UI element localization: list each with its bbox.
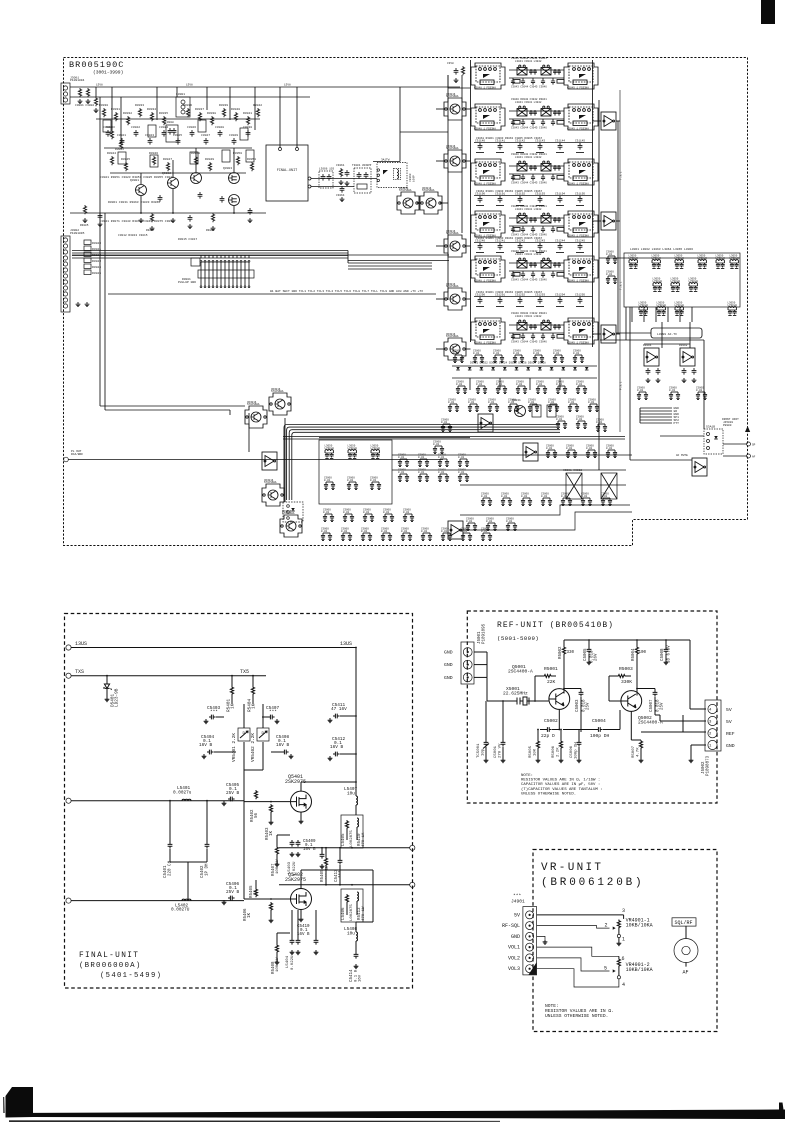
svg-text:U330PP: U330PP xyxy=(362,164,372,167)
svg-text:C3061 R3061 C3063 R3063 C306: C3061 R3061 C3063 R3063 C3065 R3065 C306… xyxy=(476,237,543,240)
svg-text:P1091094: P1091094 xyxy=(70,79,85,82)
right bank vertical feeds xyxy=(631,307,633,322)
svg-text:R3047: R3047 xyxy=(163,158,172,161)
capacitor C5401 220 CH xyxy=(169,801,171,842)
bottom band long wires xyxy=(392,454,632,456)
svg-text:270 VV: 270 VV xyxy=(499,743,503,758)
filter stage FI-3 xyxy=(471,153,598,185)
svg-text:C3V8: C3V8 xyxy=(447,62,454,65)
capacitor C5414 0.1 16V xyxy=(354,952,359,959)
svg-text:GND: GND xyxy=(726,743,735,749)
buffer amp A5 xyxy=(523,443,538,461)
long feed verticals xyxy=(447,75,449,300)
disc cluster row 1 xyxy=(325,444,335,458)
svg-text:470 1W: 470 1W xyxy=(362,906,366,921)
svg-text:470 1K: 470 1K xyxy=(362,832,366,847)
svg-text:P1091095: P1091095 xyxy=(70,232,85,235)
left chain interconnect wires xyxy=(96,118,260,120)
svg-text:26V: 26V xyxy=(595,653,599,661)
svg-text:3: 3 xyxy=(709,721,712,725)
svg-text:16V B: 16V B xyxy=(303,848,316,852)
svg-text:13V8: 13V8 xyxy=(186,84,193,87)
module interconnect wires xyxy=(248,413,250,452)
phone jack amp xyxy=(692,458,707,476)
wire VOL3 to VR2 bottom xyxy=(537,969,619,987)
af cluster row 1 xyxy=(637,387,648,400)
svg-text:W1 BAT SHFT GND TCL1 TCL2 TCL3: W1 BAT SHFT GND TCL1 TCL2 TCL3 TCL4 TCL5… xyxy=(270,290,423,293)
svg-text:SQL/RF: SQL/RF xyxy=(675,920,693,926)
trimmer VR5402 2.2K xyxy=(257,728,269,741)
PL out long wire xyxy=(69,459,444,461)
svg-text:100P: 100P xyxy=(413,175,416,182)
svg-text:4.7K: 4.7K xyxy=(637,747,641,757)
right area wires xyxy=(600,339,704,341)
svg-text:R3004: R3004 xyxy=(115,148,124,151)
svg-text:C31294: C31294 xyxy=(555,294,565,297)
svg-text:R3037: R3037 xyxy=(195,108,204,111)
svg-text:R3030: R3030 xyxy=(99,104,108,107)
resistor R5401 1K xyxy=(231,676,233,686)
svg-text:R3032: R3032 xyxy=(123,112,132,115)
diode D5401 xyxy=(106,676,108,684)
svg-text:1: 1 xyxy=(709,745,712,749)
pin RF input upper xyxy=(66,798,71,803)
svg-text:C5401: C5401 xyxy=(164,865,168,878)
svg-text:Q3031: Q3031 xyxy=(512,399,521,402)
right rail clusters xyxy=(606,251,617,264)
svg-text:R3044: R3044 xyxy=(107,152,116,155)
svg-text:C31240: C31240 xyxy=(475,240,485,243)
bias resistors at connector xyxy=(78,88,81,97)
connector J5001 xyxy=(461,642,474,684)
svg-text:1K: 1K xyxy=(270,830,274,836)
svg-text:16V B: 16V B xyxy=(199,743,213,748)
connector J5002 xyxy=(705,700,721,751)
left chain hanging component clusters row 1 xyxy=(102,108,105,117)
mid band fill clusters xyxy=(441,419,452,432)
svg-text:C3022: C3022 xyxy=(131,126,140,129)
svg-text:AF: AF xyxy=(752,456,756,459)
svg-text:25V B: 25V B xyxy=(226,890,240,895)
svg-text:C31241: C31241 xyxy=(495,240,505,243)
LC bank outline box xyxy=(624,253,740,307)
svg-text:16V: 16V xyxy=(359,974,363,982)
svg-text:RESISTOR VALUES ARE IN Ω, 1/16: RESISTOR VALUES ARE IN Ω, 1/16W : xyxy=(521,778,600,783)
lower output node wire xyxy=(279,884,410,886)
column inner rail xyxy=(598,100,600,470)
gate network R5402 R5403 xyxy=(244,801,291,803)
caps L5404 0.022u xyxy=(290,938,295,945)
small caps row under chain xyxy=(158,195,163,202)
svg-text:C3061: C3061 xyxy=(336,164,345,167)
svg-text:C3028: C3028 xyxy=(215,126,224,129)
oscillator transistor Q3031 xyxy=(515,406,526,417)
svg-text:R3038: R3038 xyxy=(207,112,216,115)
svg-text:R3034: R3034 xyxy=(147,108,156,111)
svg-text:AF: AF xyxy=(683,970,689,976)
svg-text:C3012 R3013 C3015: C3012 R3013 C3015 xyxy=(118,234,148,237)
svg-text:0.022U: 0.022U xyxy=(291,955,295,970)
svg-text:PTT: PTT xyxy=(674,422,680,425)
svg-text:FINAL-UNIT: FINAL-UNIT xyxy=(277,169,297,173)
wire 13US rail xyxy=(71,647,356,649)
svg-text:VOL2: VOL2 xyxy=(508,955,520,961)
bottom rows extension xyxy=(461,528,472,541)
svg-text:R3031: R3031 xyxy=(111,108,120,111)
svg-text:C31192: C31192 xyxy=(515,193,525,196)
svg-text:C31295: C31295 xyxy=(575,294,585,297)
svg-text:GND: GND xyxy=(444,650,453,656)
svg-text:10 6.3V: 10 6.3V xyxy=(668,645,672,663)
svg-text:C5007: C5007 xyxy=(650,699,654,712)
svg-text:C31291: C31291 xyxy=(495,294,505,297)
main double rail xyxy=(283,436,625,438)
svg-text:C5414: C5414 xyxy=(350,969,354,982)
svg-text:P1091095: P1091095 xyxy=(483,623,487,644)
svg-text:(T)CAPACITOR VALUES ARE TANTAL: (T)CAPACITOR VALUES ARE TANTALUM : xyxy=(521,787,603,792)
svg-text:VR-UNIT: VR-UNIT xyxy=(541,862,603,874)
svg-text:1P DH: 1P DH xyxy=(206,863,210,876)
emitter wires xyxy=(558,710,560,730)
bottom page-edge black bar xyxy=(6,1103,785,1120)
trimmer VR5401 2.2K xyxy=(238,728,250,741)
svg-text:LD23-9B: LD23-9B xyxy=(115,688,120,707)
REF-UNIT dashed border xyxy=(467,611,717,803)
svg-text:C3021 R3051 C3023 R3053 C3025: C3021 R3051 C3023 R3053 C3025 R3055 C302… xyxy=(100,176,174,179)
disc extra row right xyxy=(398,469,409,482)
svg-text:330K: 330K xyxy=(621,679,632,685)
svg-text:C5006: C5006 xyxy=(570,745,574,758)
svg-text:C5008: C5008 xyxy=(661,648,665,661)
wire RF input upper xyxy=(71,800,244,802)
svg-text:C31140: C31140 xyxy=(475,140,485,143)
svg-text:C3026: C3026 xyxy=(187,126,196,129)
svg-text:C31190: C31190 xyxy=(475,193,485,196)
svg-text:C31145: C31145 xyxy=(575,140,585,143)
svg-text:D3092: D3092 xyxy=(679,344,688,347)
FET Q3003 xyxy=(229,173,240,184)
stage buffer amp A2 xyxy=(601,212,616,230)
PL buffer amp xyxy=(262,452,277,470)
diode row stubs xyxy=(469,378,471,390)
svg-text:L5405: L5405 xyxy=(342,833,346,846)
svg-text:22p D: 22p D xyxy=(541,733,555,739)
svg-text:SP: SP xyxy=(752,444,756,447)
svg-text:100 1W: 100 1W xyxy=(276,859,280,874)
svg-text:C31293: C31293 xyxy=(535,294,545,297)
T3L vertical service rail xyxy=(619,90,621,432)
svg-text:R5004: R5004 xyxy=(632,648,636,661)
filter stage FI-4 xyxy=(471,205,598,237)
resistor R5408 100 1W xyxy=(275,944,278,953)
svg-text:*** 1W: *** 1W xyxy=(325,865,330,880)
svg-text:Q3002: Q3002 xyxy=(162,172,171,175)
svg-text:13V8: 13V8 xyxy=(96,84,103,87)
svg-text:C3061 R3061 C3063 R3063 C306: C3061 R3061 C3063 R3063 C3065 R3065 C306… xyxy=(476,291,543,294)
svg-text:VR5401 2.2K: VR5401 2.2K xyxy=(232,733,237,762)
squelch module M4 xyxy=(280,510,302,537)
stage buffer amp A1 xyxy=(601,112,616,130)
svg-text:Q3003: Q3003 xyxy=(223,167,232,170)
svg-text:R3046: R3046 xyxy=(149,152,158,155)
svg-text:VOL3: VOL3 xyxy=(508,966,520,972)
svg-text:C5003: C5003 xyxy=(576,699,580,712)
stage buffer amp A3 xyxy=(601,325,616,343)
svg-text:C3020: C3020 xyxy=(103,126,112,129)
collector wires xyxy=(564,688,581,690)
control bus wires xyxy=(72,250,348,252)
left chain hanging component clusters row 2 xyxy=(106,130,111,137)
svg-text:25V: 25V xyxy=(661,702,665,710)
AF jack xyxy=(685,926,687,938)
svg-text:R3007: R3007 xyxy=(146,229,155,232)
svg-text:FINAL-UNIT: FINAL-UNIT xyxy=(79,952,139,960)
wire second rail xyxy=(70,96,310,98)
svg-text:C5001: C5001 xyxy=(494,745,498,758)
svg-text:16V B: 16V B xyxy=(276,743,290,748)
mid band extra row above diodes xyxy=(453,350,464,363)
mid band extra clusters row B2 xyxy=(528,399,539,412)
svg-text:VR5402 2.2K: VR5402 2.2K xyxy=(251,733,256,762)
svg-text:BR005190C: BR005190C xyxy=(69,60,124,70)
svg-text:0.0027U: 0.0027U xyxy=(171,908,190,913)
svg-text:C3029: C3029 xyxy=(229,134,238,137)
speaker amp header box xyxy=(651,328,702,338)
wire GND with ground xyxy=(537,936,545,939)
svg-text:C3024: C3024 xyxy=(159,126,168,129)
svg-text:***: *** xyxy=(269,710,277,715)
wire VOL1 to VR2 top xyxy=(537,947,619,956)
LC bank row 1 xyxy=(629,254,639,268)
svg-text:C3064: C3064 xyxy=(336,194,345,197)
svg-text:***: *** xyxy=(210,710,218,715)
speaker amp AF1 xyxy=(644,348,659,366)
svg-text:C5004: C5004 xyxy=(592,718,606,724)
connector J4901 xyxy=(523,907,537,975)
svg-text:R5005: R5005 xyxy=(529,745,533,758)
capacitor C5413 xyxy=(338,858,343,865)
svg-text:100p DH: 100p DH xyxy=(590,733,610,739)
svg-text:R3051: R3051 xyxy=(247,158,256,161)
right of disc row xyxy=(398,454,409,467)
svg-text:C3025: C3025 xyxy=(173,134,182,137)
svg-text:47 16V: 47 16V xyxy=(331,707,347,712)
svg-text:C3021: C3021 xyxy=(117,134,126,137)
svg-text:CAPACITOR VALUES ARE IN µF, 50: CAPACITOR VALUES ARE IN µF, 50V : xyxy=(521,783,600,787)
capacitor C5402 1P DH xyxy=(206,801,208,842)
svg-text:VOL1: VOL1 xyxy=(508,945,520,951)
svg-text:C31243: C31243 xyxy=(535,240,545,243)
wire 13US vertical feed xyxy=(355,648,357,783)
svg-text:R3040: R3040 xyxy=(231,108,240,111)
wire RF-SQL to VR1 wiper xyxy=(537,926,610,929)
transistor Q3001 xyxy=(136,185,147,196)
bottom-left black square xyxy=(6,1087,34,1113)
FET Q5402 source ground xyxy=(300,910,302,918)
chain feed down-left xyxy=(99,294,101,406)
svg-text:C31191: C31191 xyxy=(495,193,505,196)
control line bundle xyxy=(640,407,672,409)
PL detect module M1 xyxy=(245,401,267,428)
svg-text:GND: GND xyxy=(444,675,453,681)
antenna path modules xyxy=(397,187,419,214)
disc cluster row 2 xyxy=(324,477,335,490)
svg-text:(5001-5099): (5001-5099) xyxy=(497,635,539,642)
resistor R5407 100 1W xyxy=(275,846,278,855)
svg-text:10p: 10p xyxy=(482,748,486,756)
SQL/RF control box xyxy=(672,918,696,926)
FET Q3004 xyxy=(229,195,240,206)
svg-text:100: 100 xyxy=(639,651,647,655)
coil L5402 0.0027U xyxy=(182,899,191,901)
svg-text:R3039: R3039 xyxy=(219,104,228,107)
svg-text:C3041 R3071 C3043 R3073 C3045: C3041 R3071 C3043 R3073 C3045 R3075 C304… xyxy=(100,220,174,223)
svg-text:L3001: L3001 xyxy=(176,93,185,96)
amp stage cluster boxes xyxy=(103,120,111,132)
svg-text:REF: REF xyxy=(726,731,735,737)
crystal filter cans xyxy=(566,473,582,499)
svg-text:(5401-5499): (5401-5499) xyxy=(100,972,162,980)
svg-text:22K: 22K xyxy=(547,679,556,685)
speaker amp AF2 xyxy=(680,348,695,366)
svg-text:C3061 R3061 C3063 R3063 C306: C3061 R3061 C3063 R3063 C3065 R3065 C306… xyxy=(476,137,543,140)
svg-text:C3027: C3027 xyxy=(201,134,210,137)
svg-text:D3021 D3022 D3023 D3024 D3025: D3021 D3022 D3023 D3024 D3025 D3026 D302… xyxy=(470,362,546,365)
svg-text:R3035: R3035 xyxy=(159,112,168,115)
filter stage FI-5 xyxy=(471,250,598,282)
filter stage FI-1 xyxy=(471,57,598,89)
border junction arrow xyxy=(745,426,750,432)
svg-text:X3001 X3002: X3001 X3002 xyxy=(563,469,582,472)
svg-text:3: 3 xyxy=(622,908,625,914)
svg-text:R5003: R5003 xyxy=(619,666,633,672)
svg-text:TXS: TXS xyxy=(75,669,84,675)
L5405 R5410 damping network xyxy=(341,815,363,848)
svg-text:R5405: R5405 xyxy=(250,885,254,898)
svg-text:1K: 1K xyxy=(252,703,257,709)
svg-text:***: *** xyxy=(339,870,344,878)
bus pin resistor packs xyxy=(84,240,91,245)
svg-text:R3045: R3045 xyxy=(121,158,130,161)
svg-text:C3030: C3030 xyxy=(243,126,252,129)
audio cluster row C xyxy=(546,445,557,458)
svg-text:J4901: J4901 xyxy=(511,899,525,905)
svg-text:UNLESS OTHERWISE NOTED.: UNLESS OTHERWISE NOTED. xyxy=(521,792,576,796)
svg-text:C5402: C5402 xyxy=(201,865,205,878)
buffer amp A4 xyxy=(478,414,493,432)
svg-text:1K: 1K xyxy=(248,912,252,918)
drain feed and coil L5407 10u xyxy=(300,782,302,791)
svg-text:C3061 R3061 C3063 R3063 C306: C3061 R3061 C3063 R3063 C3065 R3065 C306… xyxy=(476,190,543,193)
FINAL-UNIT interconnect box xyxy=(266,145,308,201)
svg-text:C3001 C3002: C3001 C3002 xyxy=(75,104,94,107)
rounded corner control bus xyxy=(284,425,560,501)
svg-text:R5001: R5001 xyxy=(544,666,558,672)
VR-UNIT dashed border xyxy=(533,850,717,1032)
svg-text:100 1W: 100 1W xyxy=(276,957,280,972)
registration mark top-right black rectangle xyxy=(761,0,775,24)
filter stage FI-2 xyxy=(471,98,598,130)
pin RF input lower xyxy=(66,898,71,903)
svg-text:P1090873: P1090873 xyxy=(707,755,711,776)
svg-text:P8900: P8900 xyxy=(723,424,732,427)
svg-text:L3006 103: L3006 103 xyxy=(319,168,334,171)
svg-text:L3099 AF-TX: L3099 AF-TX xyxy=(657,333,677,336)
svg-text:16V B: 16V B xyxy=(297,933,310,937)
svg-text:220 CH: 220 CH xyxy=(169,860,173,876)
relay feed wires xyxy=(373,161,400,163)
cap cluster C3008 xyxy=(166,125,178,142)
svg-text:L002875: L002875 xyxy=(350,830,354,847)
svg-text:4: 4 xyxy=(709,709,712,713)
svg-text:R5006: R5006 xyxy=(552,745,556,758)
svg-text:4: 4 xyxy=(622,982,625,988)
upper output node wire xyxy=(279,847,410,849)
svg-text:13V8: 13V8 xyxy=(284,84,291,87)
pin 13US xyxy=(66,645,71,650)
main schematic dashed border xyxy=(64,58,748,546)
svg-text:C31144: C31144 xyxy=(555,140,565,143)
svg-text:C31141: C31141 xyxy=(495,140,505,143)
svg-text:2: 2 xyxy=(709,733,712,737)
svg-text:25V B: 25V B xyxy=(226,791,240,796)
REF output wire xyxy=(641,731,706,733)
band clusters upper mid xyxy=(481,493,492,506)
svg-text:RF-SQL: RF-SQL xyxy=(502,923,520,929)
svg-text:13US: 13US xyxy=(75,641,87,647)
svg-text:L5406: L5406 xyxy=(342,907,346,920)
amp coupling caps xyxy=(646,368,651,375)
svg-text:C31245: C31245 xyxy=(575,240,585,243)
svg-text:10K: 10K xyxy=(534,748,538,756)
svg-text:2SC4400-A: 2SC4400-A xyxy=(638,720,663,726)
L5406 R5413 damping network xyxy=(341,889,363,922)
svg-text:5V: 5V xyxy=(726,707,732,713)
svg-text:PULLUP GND: PULLUP GND xyxy=(178,281,196,284)
svg-text:5V: 5V xyxy=(726,719,732,725)
svg-text:C31194: C31194 xyxy=(555,193,565,196)
VR4901-2 potentiometer xyxy=(618,956,620,958)
svg-text:T3001: T3001 xyxy=(352,164,361,167)
svg-text:R5409: R5409 xyxy=(321,869,325,882)
svg-text:R5002: R5002 xyxy=(559,646,563,659)
resistor R5404 1K xyxy=(252,676,254,686)
svg-text:R3005: R3005 xyxy=(80,224,89,227)
svg-text:13US: 13US xyxy=(340,641,352,647)
svg-text:RCA/BNC: RCA/BNC xyxy=(71,452,83,456)
left chain mid cluster row 3 xyxy=(110,156,113,165)
svg-text:L3061 L3062 L3063 L3064 L3065: L3061 L3062 L3063 L3064 L3065 L3066 xyxy=(630,248,693,251)
svg-text:16V B: 16V B xyxy=(330,745,344,750)
svg-text:6: 6 xyxy=(622,956,625,962)
svg-text:D3091: D3091 xyxy=(643,344,652,347)
LC bank row 3 xyxy=(639,301,649,315)
left chain transistor Q3005 xyxy=(191,173,202,184)
pin TXS xyxy=(66,673,71,678)
svg-text:S3A1B: S3A1B xyxy=(706,426,715,429)
column top bias cluster xyxy=(454,68,459,75)
bottom-left buffer amp xyxy=(448,521,463,539)
svg-text:R3042: R3042 xyxy=(253,104,262,107)
svg-text:R3015 C3017: R3015 C3017 xyxy=(178,238,197,241)
svg-text:C31143: C31143 xyxy=(535,140,545,143)
svg-text:C31290: C31290 xyxy=(475,294,485,297)
svg-text:Q3001: Q3001 xyxy=(130,179,139,182)
wire VOL2 to VR2 wiper xyxy=(537,958,610,971)
svg-text:L5404: L5404 xyxy=(286,955,290,968)
osc load boxes xyxy=(532,405,541,417)
LC bank row 2 xyxy=(653,277,663,291)
